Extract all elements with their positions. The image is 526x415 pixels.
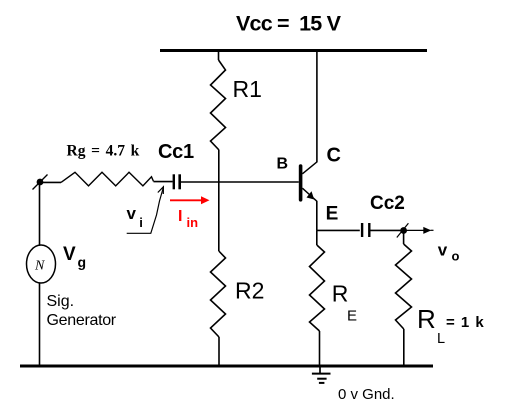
wire: generator to ground rail bbox=[39, 283, 41, 366]
ground rail (bottom) bbox=[20, 365, 433, 368]
resistor RL bbox=[403, 231, 405, 245]
resistor Rg bbox=[61, 172, 154, 186]
svg-text:g: g bbox=[78, 254, 87, 270]
svg-text:v: v bbox=[127, 204, 137, 223]
transistor Q1 base bar bbox=[299, 166, 303, 200]
output arrow bbox=[404, 229, 426, 231]
svg-text:E: E bbox=[347, 308, 357, 325]
wire: R1 bottom through base node to R2 top bbox=[218, 150, 220, 251]
wire: node to Rg bbox=[40, 181, 61, 183]
transistor Q1 emitter lead with arrow bbox=[302, 188, 316, 201]
wire: Cc2 to output node bbox=[370, 229, 403, 231]
svg-text:Cc1: Cc1 bbox=[158, 141, 194, 163]
wire: node down to generator bbox=[39, 182, 41, 246]
svg-text:E: E bbox=[326, 204, 339, 225]
svg-text:I: I bbox=[178, 208, 182, 225]
svg-text:R2: R2 bbox=[235, 278, 264, 304]
svg-text:R: R bbox=[332, 281, 349, 307]
svg-text:B: B bbox=[277, 156, 289, 173]
capacitor Cc1 bbox=[173, 174, 175, 189]
svg-text:Generator: Generator bbox=[47, 312, 117, 329]
svg-text:Vcc = 15 V: Vcc = 15 V bbox=[236, 12, 342, 36]
resistor R1 bbox=[211, 60, 226, 150]
svg-text:Rg = 4.7 k: Rg = 4.7 k bbox=[67, 143, 140, 160]
transistor Q1 collector lead bbox=[302, 162, 317, 174]
svg-text:i: i bbox=[139, 215, 143, 230]
svg-text:R1: R1 bbox=[233, 76, 262, 102]
svg-text:Sig.: Sig. bbox=[47, 293, 75, 310]
svg-text:= 1 k: = 1 k bbox=[446, 314, 484, 331]
vi leader arrow bbox=[127, 188, 164, 233]
wire: Rg to Cc1 bbox=[154, 181, 173, 183]
current arrow I_in (red) bbox=[170, 199, 203, 201]
node vo (output node with slash) bbox=[400, 227, 407, 234]
node A (input node with slash) bbox=[37, 179, 44, 186]
signal generator Vg bbox=[27, 245, 56, 283]
svg-text:v: v bbox=[438, 241, 448, 260]
resistor R2 bbox=[211, 251, 226, 337]
svg-text:in: in bbox=[187, 215, 199, 230]
svg-text:L: L bbox=[437, 331, 445, 347]
wire: Cc1 to base bbox=[181, 181, 299, 183]
svg-text:R: R bbox=[417, 304, 436, 334]
svg-text:N: N bbox=[34, 259, 45, 274]
capacitor Cc2 bbox=[361, 223, 363, 237]
svg-text:o: o bbox=[452, 249, 460, 264]
svg-text:Cc2: Cc2 bbox=[370, 193, 405, 214]
ground symbol bbox=[319, 366, 321, 373]
wire: R2 bottom to ground rail bbox=[218, 337, 220, 366]
svg-text:C: C bbox=[327, 145, 341, 167]
Vcc supply rail (top) bbox=[160, 49, 427, 52]
svg-text:0 v Gnd.: 0 v Gnd. bbox=[338, 386, 395, 403]
wire: rail to R1 bbox=[218, 50, 220, 60]
resistor RE bbox=[316, 230, 318, 245]
wire: emitter node to Cc2 bbox=[317, 229, 360, 231]
svg-text:V: V bbox=[63, 244, 76, 265]
